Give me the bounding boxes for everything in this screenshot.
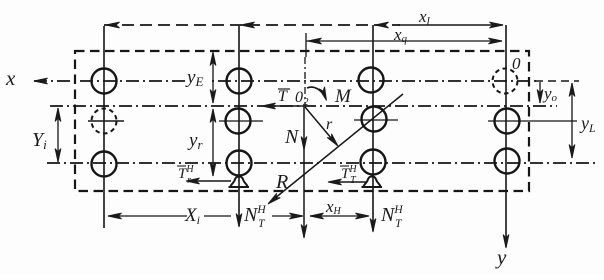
row-2 center line col3: [354, 119, 398, 121]
rivet circle row3 col3: [361, 150, 386, 175]
arrowhead x_q left: [308, 38, 322, 44]
y_E dimension line: [212, 53, 214, 103]
x_q dimension line: [306, 40, 502, 42]
overline of T_T^H right: [340, 165, 349, 167]
x axis row-1 center line: [34, 80, 537, 82]
column 4 vertical line (y axis): [505, 25, 507, 247]
bottom dimension line col2 to O2 axis: [272, 215, 302, 217]
O2 force horizontal center line: [50, 105, 557, 107]
arrowhead O2 axis bottom: [301, 225, 307, 239]
support symbol col2: [229, 177, 250, 188]
x_L top dimension line solid right part: [398, 24, 503, 26]
column 1 vertical line: [103, 26, 105, 228]
svg-text:yr: yr: [187, 130, 203, 152]
arrowhead X_i left: [108, 213, 122, 219]
column 3 vertical line: [372, 25, 374, 231]
force T arrow: [264, 105, 303, 107]
resultant R line: [269, 94, 403, 203]
Y_i dimension line: [57, 108, 59, 162]
svg-text:T: T: [278, 88, 288, 105]
force N arrow: [303, 107, 305, 237]
X_i bottom dimension line left part: [108, 215, 187, 217]
svg-text:02: 02: [295, 89, 309, 108]
svg-text:NHT: NHT: [380, 204, 403, 230]
svg-text:Yi: Yi: [32, 129, 47, 152]
arrowhead x_L at col2: [241, 22, 255, 28]
arrowhead y_E up: [210, 52, 216, 66]
row-2 center line col2: [219, 120, 263, 122]
T_T^H arrow right (col3): [330, 181, 366, 183]
y_L dimension line: [571, 83, 573, 158]
svg-text:N: N: [284, 126, 300, 148]
arrowhead x_L right end: [490, 22, 504, 28]
x_q tick: [305, 33, 307, 57]
arrowhead N col2 down: [236, 214, 242, 228]
arrowhead x_H left: [310, 213, 324, 219]
svg-text:xq: xq: [393, 25, 408, 45]
rivet circle row2 col2: [226, 109, 251, 134]
rivet circle row3 col4: [495, 149, 520, 174]
rivet circle row2 col3: [362, 107, 387, 132]
x_L top dimension line dashed: [104, 24, 400, 26]
arrowhead y_r up: [210, 109, 216, 123]
arrowhead y_r down: [210, 163, 216, 177]
arrowhead x_L at col1: [106, 22, 120, 28]
x_H dimension line: [310, 215, 368, 217]
arrowhead x_L at col3: [375, 22, 389, 28]
O2 vertical dash line: [304, 57, 306, 106]
arrowhead Y_i down: [55, 149, 61, 163]
svg-text:xH: xH: [325, 197, 342, 217]
svg-text:xl: xl: [418, 7, 431, 28]
arrowhead x axis: [34, 78, 48, 84]
svg-text:yo: yo: [542, 84, 558, 104]
rivet circle row3 col2: [227, 151, 252, 176]
svg-text:NHT: NHT: [243, 204, 266, 230]
row-1 dashed right extension: [535, 80, 579, 82]
svg-text:y: y: [495, 245, 507, 269]
column 2 vertical line: [238, 26, 240, 226]
rivet circle row1 col1: [92, 69, 117, 94]
row-3 center line: [47, 162, 596, 164]
overline of T: [278, 88, 290, 90]
radius r line: [305, 107, 337, 145]
y_r dimension line: [212, 109, 214, 176]
arrowhead y_E down: [210, 90, 216, 104]
rivet circle row2 col1 dashed: [92, 109, 117, 134]
support symbol col3: [362, 177, 383, 188]
svg-text:M: M: [334, 86, 352, 107]
arrowhead y axis down: [503, 235, 509, 249]
X_i bottom dimension line right part: [204, 215, 231, 217]
svg-text:Xi: Xi: [184, 205, 200, 227]
svg-text:R: R: [275, 171, 288, 193]
svg-text:r: r: [326, 116, 333, 133]
plate outline dashed rectangle: [75, 51, 529, 191]
rivet circle row3 col1: [92, 152, 117, 177]
rivet circle row1 col4 dashed: [493, 69, 518, 94]
arrowhead y_o down: [537, 90, 543, 104]
y_o dimension line: [539, 82, 541, 103]
row-2 center line col4: [488, 120, 577, 122]
arrowhead at O2 axis pointing right: [290, 213, 304, 219]
rivet circle row1 col3: [359, 68, 384, 93]
arrowhead x_q right: [489, 38, 503, 44]
arrowhead Y_i up: [55, 108, 61, 122]
arrowhead x_H right: [356, 213, 370, 219]
svg-text:0: 0: [512, 54, 521, 73]
arrowhead y_L up: [569, 83, 575, 97]
T_T^H arrow left (col2): [188, 180, 231, 182]
rivet circle row2 col4: [495, 109, 520, 134]
row-2 center line col1: [88, 120, 124, 122]
arrowhead N col3 down: [370, 219, 376, 233]
moment M arc: [307, 87, 326, 98]
overline of T_G^H left: [177, 165, 186, 167]
svg-text:x: x: [5, 66, 16, 90]
rivet circle row1 col2: [227, 69, 252, 94]
label backgrounds: [185, 68, 212, 88]
arrowhead y_L down: [569, 145, 575, 159]
svg-text:yL: yL: [579, 113, 596, 135]
